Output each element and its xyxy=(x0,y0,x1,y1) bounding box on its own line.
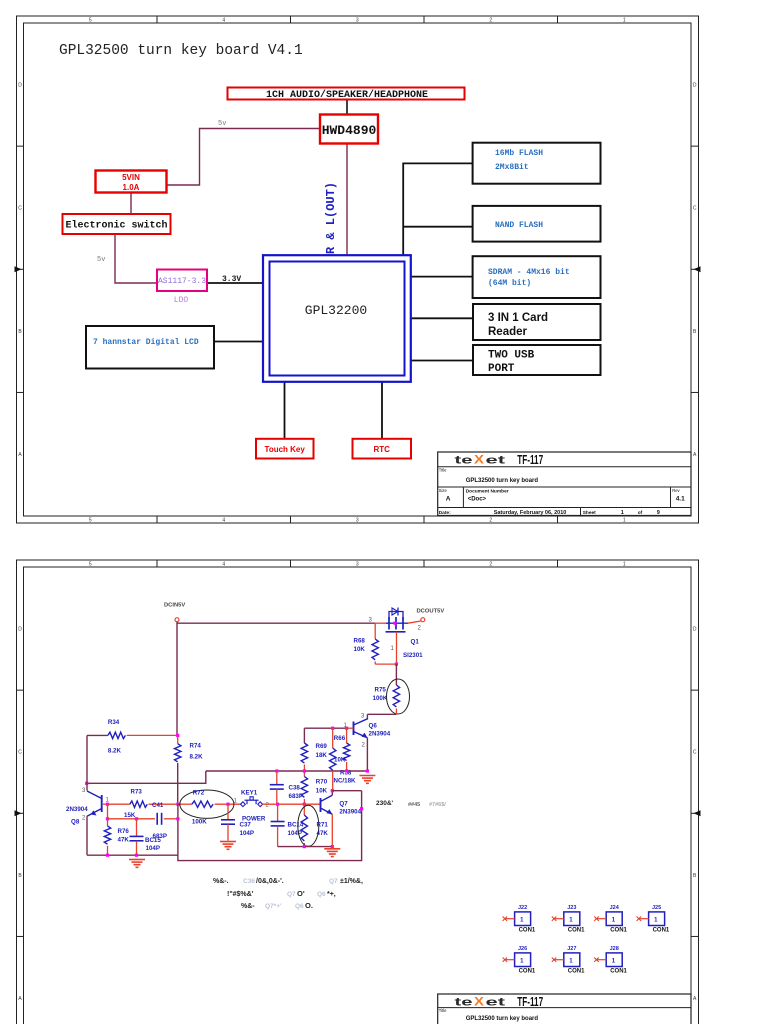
svg-text:te: te xyxy=(455,996,473,1008)
svg-text:1.0A: 1.0A xyxy=(123,183,140,192)
svg-text:CON1: CON1 xyxy=(610,968,627,974)
svg-text:CON1: CON1 xyxy=(610,927,627,933)
svg-text:104P: 104P xyxy=(240,830,254,837)
svg-text:2N3904: 2N3904 xyxy=(369,731,391,738)
svg-text:Date:: Date: xyxy=(439,510,451,516)
svg-text:Touch Key: Touch Key xyxy=(265,445,306,454)
svg-text:5: 5 xyxy=(89,518,92,524)
svg-text:±1/%&,: ±1/%&, xyxy=(340,878,363,885)
svg-text:15K: 15K xyxy=(124,812,136,819)
svg-text:Q6: Q6 xyxy=(369,723,378,730)
svg-text:7 hannstar Digital LCD: 7 hannstar Digital LCD xyxy=(93,338,199,347)
svg-text:R72: R72 xyxy=(193,790,205,797)
svg-text:J24: J24 xyxy=(610,905,620,911)
svg-text:R68: R68 xyxy=(354,638,366,645)
svg-text:D: D xyxy=(693,627,697,633)
svg-text:D: D xyxy=(18,83,22,89)
svg-text:3 IN 1 Card: 3 IN 1 Card xyxy=(488,312,548,324)
svg-text:Reader: Reader xyxy=(488,326,528,338)
svg-text:Saturday, February 06, 2010: Saturday, February 06, 2010 xyxy=(494,510,567,516)
svg-text:C: C xyxy=(18,750,22,756)
svg-text:R66: R66 xyxy=(334,735,346,742)
svg-text:3: 3 xyxy=(356,18,359,24)
svg-text:#7#6$/: #7#6$/ xyxy=(429,802,446,808)
svg-text:5v: 5v xyxy=(218,120,226,128)
svg-text:2: 2 xyxy=(489,18,492,24)
svg-text:8.2K: 8.2K xyxy=(108,748,122,755)
svg-text:Sheet: Sheet xyxy=(583,510,596,516)
svg-text:Q7: Q7 xyxy=(329,878,338,885)
svg-text:CON1: CON1 xyxy=(568,927,585,933)
svg-text:PORT: PORT xyxy=(488,363,515,375)
svg-text:DCIN5V: DCIN5V xyxy=(164,603,185,609)
svg-text:2Mx8Bit: 2Mx8Bit xyxy=(495,163,529,172)
svg-text:Rev: Rev xyxy=(672,488,680,493)
svg-text:R69: R69 xyxy=(316,743,328,750)
svg-text:C37: C37 xyxy=(240,822,252,829)
svg-text:D: D xyxy=(693,83,697,89)
svg-text:HWD4890: HWD4890 xyxy=(322,123,377,138)
svg-text:5: 5 xyxy=(89,562,92,568)
svg-text:104P: 104P xyxy=(288,830,302,837)
svg-text:O': O' xyxy=(297,889,305,898)
svg-text:Size: Size xyxy=(439,488,448,493)
svg-text:%&-.: %&-. xyxy=(213,878,229,885)
svg-text:CON1: CON1 xyxy=(653,927,670,933)
svg-text:O.: O. xyxy=(305,901,313,910)
svg-text:Q7: Q7 xyxy=(287,891,296,898)
svg-text:R76: R76 xyxy=(118,828,130,835)
svg-text:1CH AUDIO/SPEAKER/HEADPHONE: 1CH AUDIO/SPEAKER/HEADPHONE xyxy=(266,89,428,101)
svg-text:10K: 10K xyxy=(354,646,366,653)
svg-text:of: of xyxy=(638,510,643,516)
svg-text:C: C xyxy=(693,206,697,212)
svg-text:SDRAM - 4Mx16 bit: SDRAM - 4Mx16 bit xyxy=(488,268,570,277)
svg-text:R & L(OUT): R & L(OUT) xyxy=(324,182,338,254)
svg-text:3.3V: 3.3V xyxy=(222,275,241,284)
svg-text:J25: J25 xyxy=(652,905,661,911)
svg-text:4: 4 xyxy=(222,18,225,24)
svg-text:Q8: Q8 xyxy=(71,819,80,826)
svg-text:J27: J27 xyxy=(567,946,576,952)
svg-text:CON1: CON1 xyxy=(519,927,536,933)
svg-text:Document Number: Document Number xyxy=(466,489,509,495)
svg-text:3: 3 xyxy=(356,518,359,524)
svg-text:NC/18K: NC/18K xyxy=(334,778,357,785)
svg-text:104P: 104P xyxy=(146,845,160,852)
svg-text:<Doc>: <Doc> xyxy=(468,497,487,503)
svg-text:X: X xyxy=(474,994,484,1008)
svg-text:J22: J22 xyxy=(518,905,527,911)
svg-text:5VIN: 5VIN xyxy=(122,173,140,182)
svg-text:*+,: *+, xyxy=(327,891,336,898)
svg-text:4: 4 xyxy=(222,518,225,524)
svg-text:TF-117: TF-117 xyxy=(517,995,543,1009)
svg-text:230&': 230&' xyxy=(376,800,394,807)
svg-text:AS1117-3.3: AS1117-3.3 xyxy=(158,277,206,286)
svg-text:RTC: RTC xyxy=(373,445,390,454)
svg-text:te: te xyxy=(455,454,473,466)
svg-text:10K: 10K xyxy=(316,788,328,795)
svg-text:NAND FLASH: NAND FLASH xyxy=(495,221,543,230)
svg-text:47K: 47K xyxy=(317,830,329,837)
svg-text:9: 9 xyxy=(657,510,660,516)
svg-text:TWO USB: TWO USB xyxy=(488,350,535,362)
svg-text:C: C xyxy=(18,206,22,212)
svg-text:D: D xyxy=(18,627,22,633)
svg-text:2: 2 xyxy=(489,518,492,524)
svg-text:R34: R34 xyxy=(108,719,120,726)
svg-text:!"#$%&': !"#$%&' xyxy=(227,891,254,898)
svg-text:J26: J26 xyxy=(518,946,527,952)
svg-text:100K: 100K xyxy=(192,819,207,826)
svg-text:R70: R70 xyxy=(316,779,328,786)
svg-text:TF-117: TF-117 xyxy=(517,453,543,467)
svg-text:4.1: 4.1 xyxy=(676,496,685,503)
svg-text:J28: J28 xyxy=(610,946,619,952)
svg-text:KEY1: KEY1 xyxy=(241,790,258,797)
svg-text:1: 1 xyxy=(623,562,626,568)
svg-text:Q1: Q1 xyxy=(411,639,420,646)
svg-text:3: 3 xyxy=(356,562,359,568)
svg-text:CON1: CON1 xyxy=(568,968,585,974)
svg-text:C41: C41 xyxy=(152,802,164,809)
svg-text:DCOUT5V: DCOUT5V xyxy=(417,609,445,615)
svg-text:R73: R73 xyxy=(131,789,143,796)
svg-text:GPL32500 turn key board: GPL32500 turn key board xyxy=(466,1016,539,1022)
svg-text:2: 2 xyxy=(489,562,492,568)
svg-text:GPL32200: GPL32200 xyxy=(305,303,367,318)
svg-text:%&-: %&- xyxy=(241,903,255,910)
svg-text:2N3904: 2N3904 xyxy=(339,809,361,816)
svg-text:/0&,0&-'.: /0&,0&-'. xyxy=(256,878,284,885)
svg-text:Q6: Q6 xyxy=(295,903,304,910)
svg-text:##45: ##45 xyxy=(408,802,420,808)
svg-text:R71: R71 xyxy=(317,822,329,829)
svg-text:4: 4 xyxy=(222,562,225,568)
svg-text:Title: Title xyxy=(439,468,447,473)
svg-text:16Mb FLASH: 16Mb FLASH xyxy=(495,149,543,158)
svg-text:1: 1 xyxy=(623,518,626,524)
svg-text:A: A xyxy=(446,496,451,503)
svg-text:X: X xyxy=(474,452,484,466)
svg-text:683P: 683P xyxy=(289,793,303,800)
svg-text:R75: R75 xyxy=(375,687,387,694)
svg-text:GPL32500 turn key board V4.1: GPL32500 turn key board V4.1 xyxy=(59,43,303,59)
svg-text:1: 1 xyxy=(621,510,624,516)
svg-text:Electronic switch: Electronic switch xyxy=(65,220,167,232)
svg-text:C36: C36 xyxy=(243,878,255,885)
svg-text:C38: C38 xyxy=(289,785,301,792)
svg-text:et: et xyxy=(486,996,506,1008)
svg-text:(64M bit): (64M bit) xyxy=(488,279,531,288)
svg-text:SI2301: SI2301 xyxy=(403,652,423,659)
svg-text:2N3904: 2N3904 xyxy=(66,806,88,813)
svg-text:5v: 5v xyxy=(97,256,105,264)
svg-text:C: C xyxy=(693,750,697,756)
svg-text:J23: J23 xyxy=(567,905,576,911)
svg-text:1: 1 xyxy=(623,18,626,24)
svg-text:LDO: LDO xyxy=(174,296,189,305)
svg-text:47K: 47K xyxy=(118,837,130,844)
svg-text:CON1: CON1 xyxy=(519,968,536,974)
svg-text:18K: 18K xyxy=(316,752,328,759)
svg-text:Q7: Q7 xyxy=(339,801,348,808)
svg-text:BC15: BC15 xyxy=(145,837,161,844)
svg-text:GPL32500 turn key board: GPL32500 turn key board xyxy=(466,478,539,484)
svg-text:R74: R74 xyxy=(190,743,202,750)
svg-text:Q7*+': Q7*+' xyxy=(265,903,282,910)
svg-text:Title: Title xyxy=(439,1008,447,1013)
svg-text:Q6: Q6 xyxy=(317,891,326,898)
svg-text:5: 5 xyxy=(89,18,92,24)
svg-text:100K: 100K xyxy=(373,695,388,702)
svg-text:8.2K: 8.2K xyxy=(190,754,204,761)
svg-text:et: et xyxy=(486,454,506,466)
